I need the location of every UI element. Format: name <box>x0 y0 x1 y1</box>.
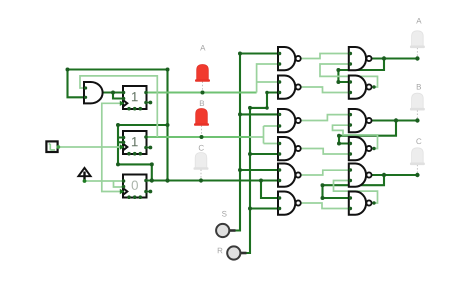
node: LED B2 terminal <box>415 118 419 122</box>
flip-flop FF2 (state 1) <box>123 131 147 154</box>
wire: S net stub to NAND G5 input-1 <box>240 169 278 171</box>
wire: clock net to FF3 inputs <box>85 181 124 187</box>
label: button R <box>218 248 223 254</box>
wire: FF2 D-feed link down to net C <box>118 164 152 180</box>
nand gate G1 <box>278 47 301 70</box>
node: junction net C to G6 branch <box>259 179 263 183</box>
pin: FF3 clock arrow <box>120 189 125 194</box>
nand gate G6 <box>278 192 301 215</box>
nand gate G3 <box>278 109 301 132</box>
wire: net B row from FF2 output <box>147 136 251 138</box>
nand gate R1b <box>349 76 372 99</box>
node: junction FF2-D branch on loop <box>166 123 170 127</box>
nand gate G5 <box>278 164 301 187</box>
pin: FF1 clock arrow <box>120 101 125 106</box>
wire: latch2 R2b output cross-coupling to R2a input-2 <box>333 125 378 148</box>
wire: NAND G6 output to latch3 R3b input-2 <box>301 203 349 209</box>
node: R net top corner <box>248 106 252 110</box>
wire: latch3 R3b output cross-coupling to R3a input-2 <box>334 181 378 204</box>
nand gate R2a <box>349 109 372 132</box>
label: LED A2 <box>416 18 421 24</box>
node: corner FF2-D branch <box>116 123 120 127</box>
pin: FF2 right lower stub <box>147 147 150 149</box>
wire: net C row from FF3 output to NAND G5 input <box>147 179 279 181</box>
wire: latch3 cross-coupling Q to R3b input-1 <box>323 175 385 198</box>
wire: latch1 cross-coupling Q to R1b input-1 <box>338 59 384 83</box>
clock source CLK <box>78 168 90 183</box>
pin: G6 inputs <box>278 196 281 199</box>
node: R net corner up <box>265 106 269 110</box>
LED A2 (grey, off) <box>410 31 425 56</box>
node: latch2 Q junction <box>394 118 398 122</box>
node: top loop corner right <box>166 68 170 72</box>
pin: R1b inputs <box>349 80 352 83</box>
wire: net B continuation to NAND G3/G4 inputs <box>250 126 278 144</box>
wire: latch2 cross-coupling Q to R2b input-1 <box>339 121 396 144</box>
LED C2 (grey, off) <box>410 148 425 173</box>
node: S net tap G5 <box>238 168 242 172</box>
wire: latch1 R1b output cross-coupling to R1a input-2 <box>320 64 378 87</box>
wire: net A vertical tap to NAND G1/G2 inputs <box>257 64 278 93</box>
node: latch3 Q junction <box>382 173 386 177</box>
label: LED C2 <box>416 138 421 144</box>
node junction dots (dark) <box>66 52 420 211</box>
pin: G2 inputs <box>278 80 281 83</box>
wire: NAND G2 output to latch1 R1b input-2 <box>301 87 349 93</box>
wire: latch3 output row to LED C2 <box>372 174 417 176</box>
LED A1 (red, on) <box>195 65 210 91</box>
node: latch2 cross corners <box>337 134 341 138</box>
node: latch1 Q junction <box>382 56 386 60</box>
wire: NAND G5 output to latch3 R3a input-1 <box>301 170 349 175</box>
toggle switch SW1 <box>46 141 60 152</box>
pin: FF2 left/right/bottom pins <box>122 136 126 140</box>
node: LED C1 tap on net C <box>199 178 203 182</box>
node: latch3 cross corners <box>321 183 325 187</box>
node: latch1 cross corners <box>336 68 340 72</box>
wire: NAND G3 output to latch2 R2a input-1 <box>301 115 349 121</box>
push button S <box>216 224 235 237</box>
node: junction AND output jog <box>111 91 115 95</box>
wire: FF2 D pin stubs <box>118 138 123 143</box>
node: S net tap G3 <box>238 112 242 116</box>
pin: FF1 right lower stub <box>147 102 150 104</box>
op: AND gate U1 <box>84 82 103 103</box>
wire: NAND G1 output to latch1 R1a input-1 <box>301 54 349 59</box>
nand gate R3b <box>349 192 372 215</box>
wire: FF2 D-input branch from feedback loop <box>118 125 168 164</box>
pin: FF3 left/right/bottom pins <box>122 179 126 183</box>
wire: AND U1 input-2 / feedback top loop (net C) <box>68 70 168 181</box>
nand gate G2 <box>278 76 301 99</box>
wire: R button net vertical bus <box>247 93 279 254</box>
pin: G5 inputs <box>278 168 281 171</box>
push button R <box>227 246 246 259</box>
node: S net top corner <box>238 52 242 56</box>
wire: latch2 output row to LED B2 <box>372 119 417 121</box>
wire: switch net to FF clock-enable pins <box>58 103 122 191</box>
pin: FF1 left/right/bottom pins <box>122 91 126 95</box>
nand gate R3a <box>349 164 372 187</box>
pin: R2a inputs <box>349 113 352 116</box>
pin: R2b inputs <box>349 142 352 145</box>
node: R net tap G6 <box>248 207 252 211</box>
pin: R3a inputs <box>349 168 352 171</box>
pin: R3b inputs <box>349 196 352 199</box>
pin: G1 inputs <box>278 52 281 55</box>
wire: NAND G4 output to latch2 R2b input-2 <box>301 149 349 155</box>
label: LED B1 <box>200 101 204 107</box>
pin: FF2 clock arrow <box>120 144 125 149</box>
node: LED A2 terminal <box>415 56 419 60</box>
flip-flop FF1 (state 1) <box>123 86 147 109</box>
label: LED C1 <box>199 145 204 151</box>
wire: AND U1 output to FF1 D inputs <box>103 93 124 99</box>
nand gate R2b <box>349 137 372 160</box>
wire: R net stub to NAND G4 input-2 <box>250 153 278 155</box>
clock-input arrowheads (dark green) <box>120 101 125 195</box>
node: LED B1 tap on net B <box>200 135 204 139</box>
flip-flop FF3 (state 0) <box>123 175 147 198</box>
LED C1 (grey, off) <box>194 153 209 179</box>
wire: latch1 output row to LED A2 <box>372 57 417 59</box>
label: LED B2 <box>417 84 421 90</box>
node: FF2 D-feed link corners <box>116 162 120 166</box>
pin: FF3 right lower stub <box>147 191 150 193</box>
LED B2 (grey, off) <box>410 93 425 118</box>
pin: G4 inputs <box>278 142 281 145</box>
pin: G3 inputs <box>278 113 281 116</box>
node: junction link meets net C <box>150 178 154 182</box>
node: R net tap G4 <box>248 152 252 156</box>
wire: R net stub to NAND G6 input-2 <box>250 207 278 209</box>
node: LED A1 tap on net A <box>201 91 205 95</box>
wire: net C branch to NAND G6 input-1 <box>261 181 278 199</box>
wire: net A row from FF1 output <box>147 92 257 94</box>
label: button S <box>222 211 227 217</box>
node: top loop corner left <box>66 68 70 72</box>
LED B1 (red, on) <box>194 109 209 135</box>
wire: S button net vertical bus <box>236 54 279 231</box>
node: junction loop meets net C <box>165 178 169 182</box>
nand gate G4 <box>278 137 301 160</box>
wire: AND U1 input-1 pale loop (net B tap) <box>80 76 157 137</box>
wire: S net stub to NAND G3 input-1 <box>240 113 278 115</box>
pin: R1b,R2b,R3b outputs <box>372 85 375 88</box>
node: LED C2 terminal <box>415 173 419 177</box>
pin: R1a inputs <box>349 52 352 55</box>
label: LED A1 <box>200 45 205 51</box>
nand gate R1a <box>349 47 372 70</box>
